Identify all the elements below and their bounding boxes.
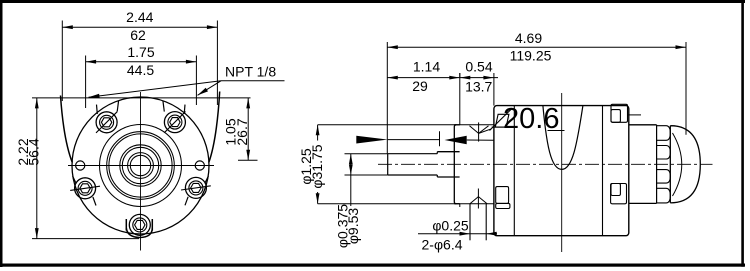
svg-text:62: 62 xyxy=(130,27,146,43)
svg-text:26.7: 26.7 xyxy=(234,118,250,145)
svg-text:20.6: 20.6 xyxy=(503,103,559,135)
svg-text:29: 29 xyxy=(412,78,428,94)
svg-text:1.75: 1.75 xyxy=(127,44,154,60)
svg-text:44.5: 44.5 xyxy=(127,62,154,78)
svg-text:119.25: 119.25 xyxy=(510,47,552,63)
svg-text:4.69: 4.69 xyxy=(515,30,542,46)
svg-text:13.7: 13.7 xyxy=(465,79,492,95)
svg-text:φ31.75: φ31.75 xyxy=(309,144,325,188)
svg-text:56.4: 56.4 xyxy=(26,138,42,165)
svg-text:1.14: 1.14 xyxy=(413,58,440,74)
svg-text:2-φ6.4: 2-φ6.4 xyxy=(422,237,463,253)
svg-text:φ9.53: φ9.53 xyxy=(345,208,361,245)
svg-text:0.54: 0.54 xyxy=(465,58,492,74)
svg-text:NPT 1/8: NPT 1/8 xyxy=(225,64,276,80)
svg-text:2.44: 2.44 xyxy=(126,9,153,25)
svg-text:φ0.25: φ0.25 xyxy=(432,218,469,234)
